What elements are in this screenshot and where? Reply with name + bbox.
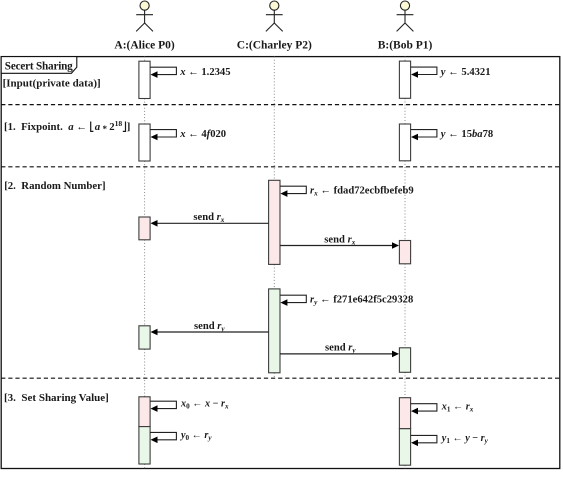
activation Bob share y [399,429,410,466]
self message x input Alice [150,67,176,74]
self message y input Bob [411,67,437,74]
svg-text:x1​ ← rx​: x1​ ← rx​ [441,401,474,413]
svg-text:y ← 15ba78: y ← 15ba78 [439,129,493,140]
self message x0 Alice [150,401,176,408]
svg-text:send ry​: send ry​ [194,321,225,333]
message send rx to Alice [157,222,269,224]
svg-text:[1. Fixpoint. a ←: [1. Fixpoint. a ← [4,121,87,133]
activation Alice share x [139,397,150,427]
svg-text:send rx​: send rx​ [324,234,355,246]
svg-text:y ← 5.4321: y ← 5.4321 [439,67,491,78]
svg-text:send ry​: send ry​ [325,343,356,355]
activation Charley random ry [269,289,280,373]
activation Alice input [139,61,150,98]
lifeline Alice [144,57,146,62]
svg-text:Secert Sharing: Secert Sharing [5,60,73,72]
activation Bob fixpoint [399,124,410,161]
activation Bob share x [399,398,410,429]
svg-text:B:(Bob P1): B:(Bob P1) [378,39,433,51]
activation Alice receive rx [139,217,150,240]
lifeline Charley [273,57,275,181]
activation Bob receive rx [399,241,410,264]
section divider 2 [1,166,560,168]
self message x1 Bob [411,404,437,411]
self message rx random Charley [280,186,306,193]
message send ry to Alice [157,331,269,333]
activation Alice fixpoint [139,124,150,161]
self message y0 Alice [150,432,176,439]
activation Bob input [399,61,410,98]
svg-text:[2. Random Number]: [2. Random Number] [4,180,105,192]
svg-text:C:(Charley P2): C:(Charley P2) [237,39,312,51]
self message ry random Charley [280,295,306,302]
svg-text:y0​ ← ry​: y0​ ← ry​ [179,430,212,442]
svg-text:[Input(private data)]: [Input(private data)] [3,78,101,90]
self message x fixpoint Alice [150,130,176,137]
actor Bob [397,1,414,31]
svg-text:send rx​: send rx​ [193,212,224,224]
activation Bob receive ry [399,348,410,373]
svg-text:]: ] [127,121,131,133]
activation Alice share y [139,427,150,464]
actor Charley [266,1,283,31]
section divider 3 [1,377,560,379]
svg-text:rx​ ← fdad72ecbfbefeb9: rx​ ← fdad72ecbfbefeb9 [310,185,414,197]
activation Charley random rx [269,180,280,264]
activation Alice receive ry [139,326,150,349]
self message y fixpoint Bob [411,130,437,137]
svg-text:ry​ ← f271e642f5c29328: ry​ ← f271e642f5c29328 [310,295,413,307]
lifeline Bob [404,57,406,62]
section divider 1 [1,104,560,106]
actor Alice [136,1,153,31]
title tab Secert Sharing [1,57,77,74]
svg-text:[3. Set Sharing Value]: [3. Set Sharing Value] [4,392,109,404]
svg-text:A:(Alice P0): A:(Alice P0) [114,39,175,51]
svg-text:x ← 4f020: x ← 4f020 [179,129,226,140]
message send ry to Bob [280,353,393,355]
message send rx to Bob [280,245,393,247]
lfloor [91,122,94,132]
svg-text:x ← 1.2345: x ← 1.2345 [179,67,230,78]
self message y1 Bob [411,435,437,442]
rfloor [123,122,126,132]
